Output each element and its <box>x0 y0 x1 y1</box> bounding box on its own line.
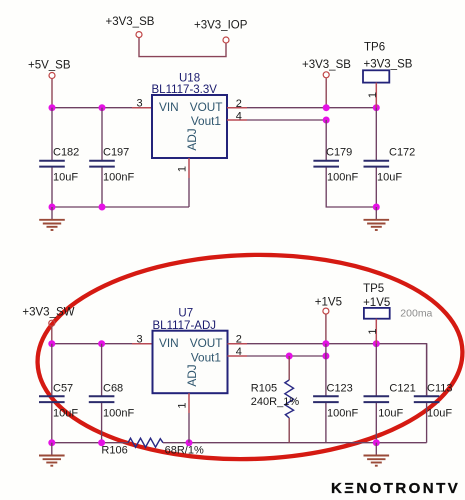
wire Vout1 (U7) to R105/C123 <box>247 355 326 357</box>
wire C57 top <box>51 344 53 396</box>
svg-text:68R/1%: 68R/1% <box>165 445 204 457</box>
svg-text:C123: C123 <box>327 383 353 395</box>
capacitor C197 <box>89 161 115 167</box>
resistor R105 zigzag <box>285 380 294 418</box>
op-amp U18 regulator box <box>152 95 227 158</box>
svg-text:VIN: VIN <box>159 336 179 350</box>
junction VOUT rail at x376 <box>373 104 380 111</box>
wire +1V5 rail <box>247 344 427 396</box>
wire C121 top <box>375 344 377 396</box>
svg-text:10uF: 10uF <box>377 172 402 184</box>
capacitor C182 <box>39 161 65 167</box>
wire C179 bottom to ground node <box>326 168 376 208</box>
junction ground node right <box>373 204 380 211</box>
capacitor C113 <box>414 396 440 402</box>
svg-text:C197: C197 <box>103 147 129 159</box>
pin 1 stub U18 (ADJ) <box>188 158 190 178</box>
junction bottom rail at C68 <box>98 340 105 347</box>
wire bottom ground rail mid <box>163 442 427 444</box>
node +5V_SB port circle <box>49 73 55 79</box>
wire C182 bottom <box>51 168 53 208</box>
red marker ellipse <box>35 249 465 465</box>
svg-text:VOUT: VOUT <box>190 336 223 350</box>
svg-text:10uF: 10uF <box>378 408 403 420</box>
svg-text:C113: C113 <box>427 383 452 395</box>
wire Vout1 to C179 node <box>247 119 326 121</box>
op-amp U7 regulator box <box>153 331 228 394</box>
svg-text:R105: R105 <box>251 383 277 395</box>
svg-text:100nF: 100nF <box>327 408 358 420</box>
capacitor C121 <box>364 396 390 402</box>
svg-text:VOUT: VOUT <box>190 100 223 114</box>
resistor R106 zigzag <box>128 438 163 447</box>
pin 2 stub U7 <box>228 343 248 345</box>
wire top rail to U18 VIN <box>52 107 132 109</box>
junction Vout1 wire at R105 <box>286 353 293 360</box>
svg-text:C182: C182 <box>53 147 79 159</box>
junction +1V5 rail at C123 <box>322 340 329 347</box>
svg-text:TP5: TP5 <box>363 283 384 295</box>
svg-text:ADJ: ADJ <box>185 128 199 150</box>
svg-text:10uF: 10uF <box>427 408 452 420</box>
wire C123 mid <box>325 344 327 396</box>
svg-text:+3V3_SB: +3V3_SB <box>106 16 155 28</box>
capacitor C172 <box>364 161 390 167</box>
junction bottom ground rail left end <box>48 439 55 446</box>
junction top rail at C197 <box>99 104 106 111</box>
svg-text:4: 4 <box>236 110 242 122</box>
svg-text:10uF: 10uF <box>53 172 78 184</box>
pin 3 stub U18 <box>132 107 152 109</box>
junction bottom ground rail at ADJ <box>186 439 193 446</box>
svg-text:200ma: 200ma <box>400 308 432 320</box>
svg-text:+3V3_IOP: +3V3_IOP <box>194 20 248 32</box>
pin 4 stub U18 <box>227 119 247 121</box>
wire C197 bottom <box>101 168 103 208</box>
svg-text:+1V5: +1V5 <box>315 296 342 308</box>
junction Vout1 wire at x326 <box>323 117 330 124</box>
ground symbol top-right <box>364 207 390 230</box>
wire C68 top <box>101 344 103 396</box>
svg-text:C57: C57 <box>53 383 73 395</box>
wire C179 top <box>325 120 327 160</box>
svg-text:100nF: 100nF <box>327 172 358 184</box>
wire C197 top <box>101 108 103 160</box>
wire +1V5 stem <box>325 315 327 344</box>
wire C57 bottom <box>51 403 53 443</box>
wire C121 bottom <box>375 403 377 443</box>
wire ground rail top-left <box>52 206 189 208</box>
svg-text:100nF: 100nF <box>103 408 134 420</box>
junction ground rail at C197 <box>99 204 106 211</box>
wire +5V_SB stem <box>51 79 53 108</box>
pin 1 TP5 <box>375 319 377 344</box>
svg-text:1: 1 <box>177 402 189 408</box>
wire C113 bottom <box>426 403 428 443</box>
junction bottom rail at ground right <box>373 439 380 446</box>
wire U7 ADJ to bottom rail <box>188 413 190 443</box>
pin 1 TP6 <box>375 83 377 108</box>
wire bottom ground rail left <box>52 442 128 444</box>
wire bottom rail to U7 VIN <box>52 343 132 345</box>
junction +1V5 rail at TP5 <box>373 340 380 347</box>
svg-text:+3V3_SB: +3V3_SB <box>302 59 351 71</box>
svg-text:10uF: 10uF <box>53 408 78 420</box>
svg-text:3: 3 <box>137 334 143 346</box>
svg-text:C121: C121 <box>389 383 415 395</box>
svg-text:VIN: VIN <box>159 100 179 114</box>
svg-text:1: 1 <box>177 166 189 172</box>
svg-text:100nF: 100nF <box>103 172 134 184</box>
node +3V3_SW port circle <box>49 320 55 326</box>
junction top rail at C182 <box>49 104 56 111</box>
junction bottom ground rail at C68 <box>98 439 105 446</box>
svg-text:1: 1 <box>367 328 379 334</box>
wire VOUT rail <box>247 107 376 109</box>
wire C123 bottom <box>325 403 327 443</box>
capacitor C179 <box>313 161 339 167</box>
wire C172 top <box>375 108 377 160</box>
wire +3V3_SB mid stem <box>325 78 327 108</box>
svg-text:+5V_SB: +5V_SB <box>28 60 71 72</box>
ground symbol top-left <box>39 207 65 230</box>
junction bottom rail at C57 <box>48 340 55 347</box>
svg-text:Vout1: Vout1 <box>191 114 221 128</box>
wire U18 ADJ to ground rail <box>188 178 190 207</box>
svg-text:KΞNOTRONTV: KΞNOTRONTV <box>331 480 460 497</box>
svg-text:BL1117-3.3V: BL1117-3.3V <box>152 84 218 96</box>
pin 2 stub U18 <box>227 107 247 109</box>
svg-text:C179: C179 <box>326 147 352 159</box>
node +3V3_SB top port circle <box>136 32 142 38</box>
wire C172 bottom <box>375 168 377 208</box>
pin 3 stub U7 <box>132 343 153 345</box>
testpoint TP5 box <box>364 308 390 319</box>
node +1V5 port circle <box>323 308 329 314</box>
wire bridge between +3V3_SB and +3V3_IOP <box>139 38 226 57</box>
ground symbol bottom-left <box>39 443 65 466</box>
wire R105 top lead <box>288 356 290 380</box>
pin 1 stub U7 (ADJ) <box>188 393 190 413</box>
junction VOUT rail at x326 <box>323 104 330 111</box>
node +3V3_IOP port circle <box>223 37 229 43</box>
svg-text:240R_1%: 240R_1% <box>251 396 300 408</box>
wire C113 top <box>426 344 428 396</box>
svg-text:+3V3_SW: +3V3_SW <box>22 306 74 318</box>
capacitor C123 <box>313 396 339 402</box>
svg-text:2: 2 <box>236 98 242 110</box>
wire R105 bottom lead <box>288 418 290 443</box>
svg-text:Vout1: Vout1 <box>191 351 221 365</box>
wire C182 top <box>51 108 53 160</box>
svg-text:U18: U18 <box>179 73 200 85</box>
svg-text:+3V3_SB: +3V3_SB <box>364 59 413 71</box>
svg-text:TP6: TP6 <box>364 42 385 54</box>
capacitor C68 <box>89 396 115 402</box>
svg-text:1: 1 <box>367 92 379 98</box>
svg-text:U7: U7 <box>178 307 193 319</box>
junction Vout1 wire at C123 <box>322 353 329 360</box>
pin 4 stub U7 <box>228 355 248 357</box>
svg-text:4: 4 <box>236 346 242 358</box>
svg-text:R106: R106 <box>101 445 127 457</box>
wire C68 bottom <box>101 403 103 443</box>
node +3V3_SB mid port circle <box>323 72 329 78</box>
junction ground rail at C182 <box>49 204 56 211</box>
svg-text:3: 3 <box>137 98 143 110</box>
svg-text:C68: C68 <box>103 383 123 395</box>
svg-text:ADJ: ADJ <box>185 364 199 386</box>
svg-text:BL1117-ADJ: BL1117-ADJ <box>153 320 217 332</box>
wire +3V3_SW stem <box>51 327 53 344</box>
testpoint TP6 box <box>363 70 389 82</box>
svg-text:2: 2 <box>236 334 242 346</box>
svg-text:C172: C172 <box>389 147 415 159</box>
capacitor C57 <box>39 396 65 402</box>
ground symbol bottom-right <box>364 443 390 466</box>
